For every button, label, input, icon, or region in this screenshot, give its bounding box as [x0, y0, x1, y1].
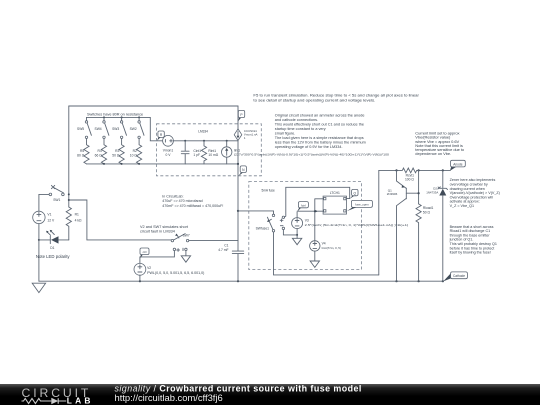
capacitor C1: [218, 243, 243, 281]
svg-text:This would effectively short o: This would effectively short out C1 and …: [275, 122, 364, 126]
svg-text:Vmon1.nA: Vmon1.nA: [244, 132, 258, 136]
wire switch top bus: [87, 117, 163, 140]
svg-text:limit(T/1n, 0, 5): limit(T/1n, 0, 5): [322, 246, 341, 250]
switch SW4: [95, 117, 109, 138]
wire top bus: [69, 105, 238, 107]
svg-text:Rload1: Rload1: [423, 206, 434, 210]
svg-text:Switches have 80R on resistanc: Switches have 80R on resistance: [87, 112, 143, 116]
svg-text:Original circuit showed an amm: Original circuit showed an ammeter acros…: [275, 113, 365, 117]
svg-text:C1: C1: [224, 243, 228, 247]
svg-text:1N4733A: 1N4733A: [426, 190, 438, 194]
resistor R4: [95, 139, 107, 164]
svg-text:V2: V2: [147, 266, 151, 270]
controlled source CCCSInt1: [234, 106, 257, 141]
node Q1 collector bus: [395, 280, 397, 282]
voltage source V3: [292, 212, 409, 238]
svg-text:http://circuitlab.com/cff3fj6: http://circuitlab.com/cff3fj6: [115, 391, 223, 402]
resistor Rcvt1: [401, 168, 418, 182]
wire rail to SW7 branch: [69, 200, 171, 240]
node Cint1 top: [184, 140, 186, 142]
svg-text:V2 and SW7 simulates short: V2 and SW7 simulates short: [140, 225, 189, 229]
logo resistor diode symbol: [22, 398, 67, 404]
wire Rcvt1 right branch: [418, 170, 420, 204]
svg-text:SW1: SW1: [53, 198, 60, 202]
svg-text:470mF => 470 millifarad = 470,: 470mF => 470 millifarad = 470,000uF!: [162, 204, 223, 208]
voltage monitor Vmon1: [163, 135, 238, 156]
switch SW7: [171, 233, 238, 242]
zener diode D2: [426, 170, 447, 281]
switch SWfuse1 control port: [280, 187, 297, 235]
flag fctrl: [297, 202, 308, 212]
svg-text:startup time constant to a ver: startup time constant to a very: [275, 127, 326, 131]
svg-text:12 V: 12 V: [47, 219, 55, 223]
resistor Rint1: [201, 141, 218, 164]
flag Anode: [450, 160, 465, 171]
note current limit text: [415, 131, 465, 157]
node rail-SW7: [68, 199, 70, 201]
svg-text:SWfuse1: SWfuse1: [256, 226, 270, 230]
ground main: [32, 283, 45, 292]
node V2 bus: [139, 280, 141, 282]
svg-text:V1: V1: [47, 213, 51, 217]
svg-text:470uF => 470 microfarad: 470uF => 470 microfarad: [162, 199, 202, 203]
svg-text:fuse_open: fuse_open: [355, 203, 369, 207]
wire main vertical: [237, 141, 239, 251]
wire bottom bus: [39, 280, 444, 282]
svg-text:SW4: SW4: [95, 127, 102, 131]
latch LTCH1: [323, 191, 346, 214]
svg-text:R1: R1: [75, 213, 79, 217]
LM334 dashed box: [157, 124, 262, 176]
resistor R3: [112, 139, 124, 164]
svg-text:and cathode connections.: and cathode connections.: [275, 118, 318, 122]
wire fctrl to latch: [297, 210, 323, 212]
svg-text:The load given here is a simpl: The load given here is a simple resistan…: [275, 136, 364, 140]
wire left rail: [68, 106, 70, 207]
svg-text:(227u*300^0.5*(tanh(((V(P)-V(N: (227u*300^0.5*(tanh(((V(P)-V(N))-0.9)*10…: [234, 153, 389, 157]
switch SW3: [112, 117, 126, 138]
svg-text:5mA fuse: 5mA fuse: [262, 188, 276, 192]
wire resistor bottom bus: [87, 163, 239, 165]
wire anode top: [379, 169, 451, 171]
svg-text:In CircuitLab:: In CircuitLab:: [162, 194, 183, 198]
transistor Q1: [387, 170, 419, 281]
node Rload1 bus: [418, 280, 420, 282]
svg-text:50 Ω: 50 Ω: [112, 153, 120, 157]
svg-text:10 Ω: 10 Ω: [130, 153, 138, 157]
svg-text:V3: V3: [305, 219, 309, 223]
svg-text:SW2: SW2: [130, 127, 137, 131]
flag P pin: [238, 110, 245, 121]
svg-text:LAB: LAB: [67, 395, 94, 405]
svg-text:small figure.: small figure.: [275, 131, 295, 135]
node zener bus: [442, 280, 444, 282]
svg-text:4 kΩ: 4 kΩ: [75, 218, 82, 222]
svg-text:fctrl: fctrl: [301, 203, 306, 207]
svg-text:circuit fault in LM334: circuit fault in LM334: [140, 229, 175, 233]
flag fuse_open: [347, 200, 373, 211]
voltage source V4: [310, 241, 341, 261]
svg-text:SW7: SW7: [183, 233, 190, 237]
svg-text:operating voltage of 0.9V for: operating voltage of 0.9V for the LM334.: [275, 145, 343, 149]
svg-text:Anode: Anode: [453, 162, 462, 166]
LED D1: [38, 230, 69, 250]
voltage source V1: [33, 194, 55, 281]
svg-text:1: 1: [244, 136, 246, 140]
note F5 text: [253, 92, 419, 102]
wire latch S input: [315, 199, 323, 241]
svg-text:dependence on Vbe.: dependence on Vbe.: [415, 151, 451, 156]
flag Cathode: [443, 272, 467, 282]
wire latch Q to switch control: [286, 187, 350, 198]
resistor R1: [66, 207, 82, 240]
svg-text:to see detail of startup and o: to see detail of startup and operating c…: [253, 98, 375, 103]
svg-text:SW3: SW3: [112, 127, 119, 131]
current source Iint1: [222, 141, 390, 164]
svg-text:less than the 12V from the bat: less than the 12V from the battery minus…: [275, 140, 366, 144]
switch SW5: [77, 117, 91, 138]
resistor R2: [130, 139, 142, 164]
svg-text:V_Z = Vbe_Q1: V_Z = Vbe_Q1: [450, 204, 475, 208]
wire main to SWfuse1: [238, 211, 274, 214]
resistor R5: [77, 139, 89, 164]
ground SW7: [181, 256, 190, 262]
svg-text:100 Ω: 100 Ω: [405, 178, 414, 182]
note original circuit text: [275, 113, 366, 149]
switch SW2: [130, 117, 144, 138]
svg-text:4.7 mF: 4.7 mF: [218, 248, 228, 252]
svg-text:10 mΩ: 10 mΩ: [208, 153, 218, 157]
svg-text:Q: Q: [354, 191, 357, 195]
svg-text:1 pF: 1 pF: [193, 153, 200, 157]
flag N pin: [238, 166, 246, 176]
switch SWfuse1: [256, 214, 379, 275]
flag ctrl: [140, 248, 149, 258]
ground V3: [292, 238, 301, 244]
note beware short text: [449, 225, 497, 255]
voltage source V2: [134, 257, 204, 281]
svg-text:SW5: SW5: [77, 127, 84, 131]
resistor Rload1: [416, 204, 434, 281]
node Iint1 top: [226, 140, 228, 142]
svg-text:2N3906: 2N3906: [387, 192, 398, 196]
svg-text:itself by blowing the fuse!: itself by blowing the fuse!: [450, 251, 491, 255]
capacitor Cint1: [181, 141, 201, 164]
fuse model dashed box: [249, 182, 362, 270]
svg-text:ctrl: ctrl: [143, 250, 147, 254]
svg-text:Note LED polarity: Note LED polarity: [36, 254, 71, 259]
ground V4: [310, 261, 319, 267]
svg-text:50 Ω: 50 Ω: [423, 211, 431, 215]
note zener crowbar text: [450, 178, 500, 208]
svg-text:D1: D1: [50, 246, 54, 250]
svg-text:80 Ω: 80 Ω: [77, 153, 85, 157]
svg-text:PWL(0,0, 5,0, 5.001,5, 6,5, 6.: PWL(0,0, 5,0, 5.001,5, 6,5, 6.001,0): [147, 271, 204, 275]
wire fuse riser: [378, 170, 380, 275]
svg-text:2.5*(tanh( (5m-limit(T/1n, 0,: 2.5*(tanh( (5m-limit(T/1n, 0, 1)*ABS(I(S…: [305, 223, 409, 227]
node sw bus dots: [103, 116, 105, 118]
svg-text:0 V: 0 V: [166, 153, 172, 157]
switch SW1: [49, 185, 64, 201]
node C1 bus: [237, 280, 239, 282]
svg-text:LTCH1: LTCH1: [330, 191, 340, 195]
switch SW7 control port: [140, 248, 187, 257]
svg-text:66 Ω: 66 Ω: [95, 153, 103, 157]
flag R pin: [157, 131, 164, 141]
svg-text:LM334: LM334: [198, 129, 208, 133]
node Rint1 top: [203, 140, 205, 142]
flag Q: [350, 189, 358, 198]
svg-text:Cathode: Cathode: [453, 274, 465, 278]
